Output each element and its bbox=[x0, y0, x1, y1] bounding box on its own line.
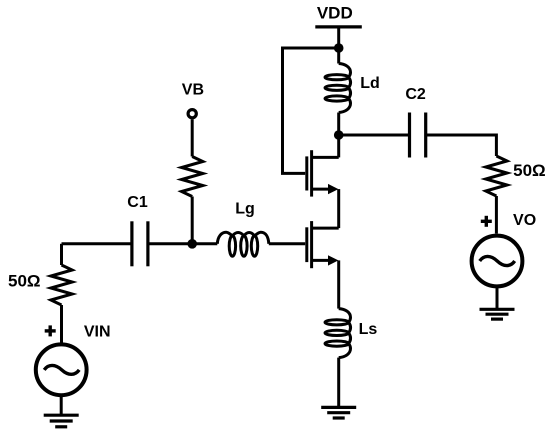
svg-text:C1: C1 bbox=[127, 194, 148, 211]
node drain junction bbox=[334, 130, 344, 140]
wire VIN to ground bbox=[60, 395, 63, 415]
svg-text:VB: VB bbox=[182, 82, 204, 99]
wire Ld to M2 drain bbox=[337, 113, 340, 158]
capacitor C1 bbox=[132, 221, 148, 266]
resistor VB bias bbox=[182, 157, 203, 197]
wire Ls to ground bbox=[337, 358, 340, 408]
node VDD junction bbox=[334, 43, 344, 53]
wire C2 to output resistor bbox=[426, 135, 497, 156]
transistor M1 input bbox=[307, 221, 339, 268]
wire VDD rail to junction bbox=[337, 27, 340, 64]
wire bias resistor to gate node bbox=[191, 197, 194, 244]
inductor Ls bbox=[325, 309, 351, 358]
ground VIN bbox=[44, 415, 79, 427]
svg-text:50Ω: 50Ω bbox=[513, 161, 546, 180]
wire VDD junction to M2 gate bbox=[283, 48, 339, 173]
plus sign VIN bbox=[45, 325, 56, 336]
svg-text:50Ω: 50Ω bbox=[8, 271, 41, 290]
wire C1 to Lg bbox=[148, 242, 217, 245]
resistor 50ohm input bbox=[51, 265, 72, 305]
wire input corner to source resistor bbox=[60, 244, 63, 265]
source VO bbox=[472, 236, 523, 287]
wire Lg to M1 gate bbox=[269, 242, 305, 245]
terminal VB bbox=[188, 110, 196, 118]
svg-text:Lg: Lg bbox=[235, 201, 255, 218]
wire VO to ground bbox=[496, 286, 499, 309]
resistor 50ohm output bbox=[486, 156, 507, 196]
wire resistor to VO source bbox=[495, 196, 498, 234]
transistor M2 cascode bbox=[307, 150, 339, 196]
svg-text:Ls: Ls bbox=[359, 321, 378, 338]
svg-text:VDD: VDD bbox=[317, 3, 353, 22]
wire VB terminal to bias resistor bbox=[191, 119, 194, 156]
wire resistor to VIN source bbox=[60, 305, 63, 343]
wire M1 source to Ls bbox=[337, 260, 340, 308]
inductor Lg bbox=[217, 232, 268, 256]
wire input node to C1 bbox=[62, 242, 132, 245]
VDD rail bbox=[315, 25, 362, 28]
source VIN bbox=[36, 344, 87, 395]
inductor Ld bbox=[325, 64, 351, 113]
svg-text:VO: VO bbox=[513, 212, 536, 229]
wire M2 source to M1 drain bbox=[337, 189, 340, 228]
ground source degeneration bbox=[321, 407, 356, 418]
capacitor C2 bbox=[410, 113, 426, 158]
node gate bias junction bbox=[187, 239, 197, 249]
svg-text:C2: C2 bbox=[405, 86, 426, 103]
svg-text:Ld: Ld bbox=[360, 75, 380, 92]
wire drain junction to C2 bbox=[339, 134, 410, 137]
plus sign VO bbox=[481, 216, 492, 227]
ground VO bbox=[480, 309, 515, 319]
svg-text:VIN: VIN bbox=[84, 324, 111, 341]
